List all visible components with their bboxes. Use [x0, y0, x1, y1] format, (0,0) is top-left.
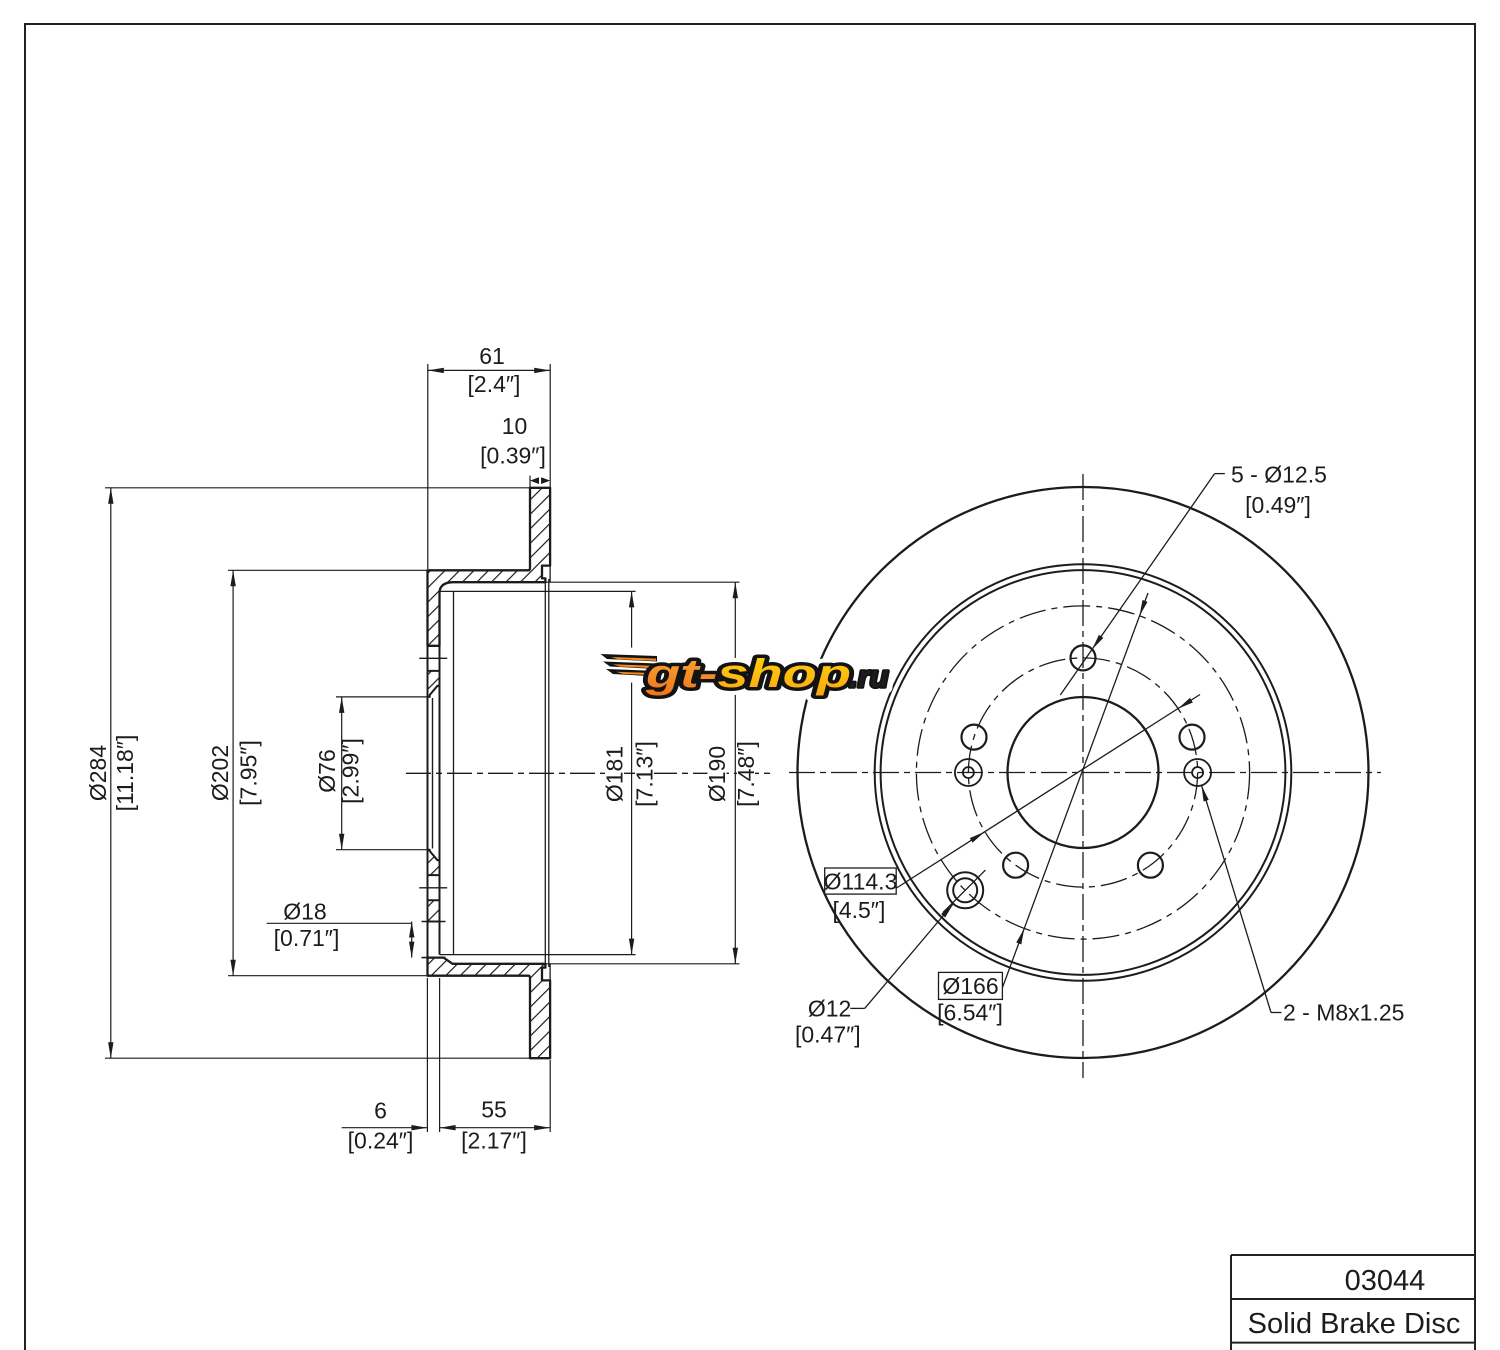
bolt circle O166 (dash-dot)	[916, 606, 1249, 939]
svg-text:[7.95″]: [7.95″]	[236, 740, 262, 806]
svg-text:.ru: .ru	[849, 659, 889, 694]
dimension 61	[428, 369, 550, 371]
disc section lower half (friction ring + drum wall + flange bottom)	[428, 958, 551, 1059]
svg-text:[4.5″]: [4.5″]	[832, 897, 885, 923]
flange segment between upper lug hole and centre bore (with bore chamfer)	[428, 671, 440, 697]
leader 5-O12.5	[1060, 474, 1225, 695]
drum inner face edge line (O181 bottom)	[440, 954, 636, 956]
svg-text:gt-shop: gt-shop	[645, 652, 851, 696]
svg-text:Ø190: Ø190	[704, 746, 730, 802]
svg-text:10: 10	[502, 413, 528, 439]
leader O12	[850, 904, 953, 1009]
dimension 55	[440, 1127, 551, 1129]
lug hole lower right	[1138, 853, 1163, 878]
flange segment between centre bore and lower lug hole (with bore chamfer)	[428, 850, 440, 875]
bottom extension lines	[426, 978, 428, 1132]
svg-text:Ø166: Ø166	[942, 973, 998, 999]
radial centre mark through counterbore hole	[943, 870, 985, 912]
centre bore O76	[1008, 697, 1159, 848]
svg-text:61: 61	[479, 343, 505, 369]
svg-text:6: 6	[374, 1098, 387, 1124]
svg-text:Ø12: Ø12	[808, 995, 851, 1021]
label O114.3 boxed	[825, 868, 897, 894]
flange outer face silhouette line	[427, 570, 429, 975]
dimension O202	[232, 570, 234, 975]
svg-text:[2.4″]: [2.4″]	[468, 371, 521, 397]
svg-text:Solid Brake Disc: Solid Brake Disc	[1248, 1308, 1461, 1340]
dimension O190	[734, 582, 736, 964]
leader 2-M8x1.25	[1202, 785, 1282, 1012]
groove outer face silhouette at ring	[549, 566, 551, 583]
vertical centreline	[1082, 474, 1084, 1078]
gt-shop.ru watermark: white halo	[601, 652, 889, 696]
dimension O284	[110, 488, 112, 1058]
label O166 boxed	[939, 972, 1003, 999]
O12 hole with O18 counterbore	[947, 872, 983, 908]
drum inner face edge line (O181 top)	[440, 590, 636, 592]
bolt circle O114.3 (dash-dot)	[968, 658, 1197, 887]
svg-text:5 - Ø12.5: 5 - Ø12.5	[1231, 462, 1327, 488]
drum outline circle O202	[881, 570, 1286, 975]
M8 service hole right	[1184, 759, 1211, 786]
svg-text:[2.99″]: [2.99″]	[338, 738, 364, 804]
svg-text:[6.54″]: [6.54″]	[937, 1000, 1003, 1026]
svg-text:Ø284: Ø284	[85, 745, 111, 801]
svg-text:55: 55	[481, 1097, 507, 1123]
extension lines O76	[336, 696, 429, 698]
svg-text:[0.49″]: [0.49″]	[1245, 492, 1311, 518]
diameter line O166	[1002, 593, 1148, 988]
upper lug hole centre mark	[419, 657, 447, 659]
extension lines O190	[545, 581, 739, 583]
svg-text:[11.18″]: [11.18″]	[112, 735, 138, 812]
svg-text:Ø18: Ø18	[283, 899, 326, 925]
svg-text:Ø181: Ø181	[602, 746, 628, 802]
svg-text:[0.47″]: [0.47″]	[795, 1022, 861, 1048]
lug hole upper left	[962, 725, 987, 750]
flange inner face silhouette line	[439, 591, 441, 954]
extension line 10	[529, 476, 531, 487]
groove edge circle	[875, 564, 1292, 981]
svg-text:Ø114.3: Ø114.3	[824, 869, 898, 895]
dimension O181	[631, 591, 633, 954]
svg-text:[0.39″]: [0.39″]	[480, 443, 546, 469]
O18 service hole edges in flange	[422, 921, 446, 923]
svg-text:[7.13″]: [7.13″]	[632, 741, 658, 807]
svg-text:[0.24″]: [0.24″]	[348, 1128, 414, 1154]
extension lines 61	[427, 364, 429, 569]
flange segment between lower lug hole and service hole	[428, 900, 440, 921]
M8 service hole left	[955, 759, 982, 786]
outer circle O284	[798, 487, 1369, 1058]
title block	[1231, 1255, 1474, 1350]
extension lines top face O284	[105, 487, 530, 489]
lug hole lower left	[1003, 853, 1028, 878]
lug hole top	[1071, 645, 1096, 670]
disc section upper half (friction ring + drum wall + flange top)	[428, 488, 551, 646]
speed streaks	[601, 654, 658, 677]
svg-text:[7.48″]: [7.48″]	[733, 741, 759, 807]
svg-text:[2.17″]: [2.17″]	[461, 1128, 527, 1154]
horizontal centreline	[789, 772, 1381, 774]
groove step faces projected inside drum	[544, 579, 546, 967]
svg-text:Ø202: Ø202	[207, 745, 233, 801]
lug hole upper right	[1180, 725, 1205, 750]
diameter line O114.3	[897, 695, 1201, 889]
dimension 10 arrows	[530, 477, 550, 484]
svg-text:03044: 03044	[1345, 1265, 1426, 1297]
horizontal centreline of section	[406, 772, 772, 774]
text background masks over centreline	[89, 727, 756, 819]
dimension 6	[342, 1127, 428, 1129]
svg-text:Ø76: Ø76	[314, 749, 340, 792]
O18 leader	[267, 922, 412, 924]
extension lines O202	[228, 569, 428, 571]
bore chamfer edge projected through bore	[432, 698, 434, 849]
svg-text:[0.71″]: [0.71″]	[274, 925, 340, 951]
dimension O76	[341, 697, 343, 850]
drum inner corner fillet edge (projected)	[453, 592, 455, 954]
svg-text:2 - M8x1.25: 2 - M8x1.25	[1283, 1000, 1404, 1026]
lower lug hole centre mark	[419, 887, 447, 889]
